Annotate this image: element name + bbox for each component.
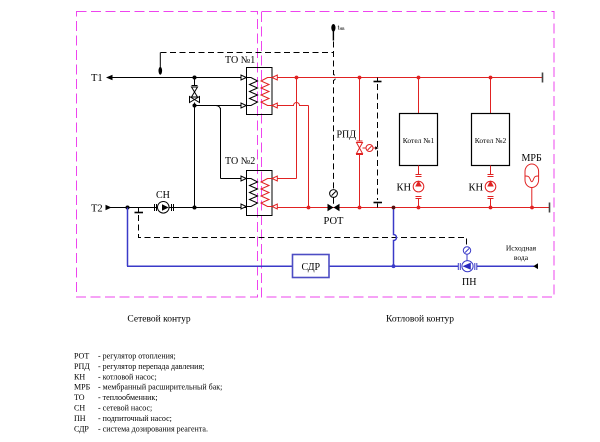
svg-text:КН: КН	[74, 372, 85, 381]
svg-text:РОТ: РОТ	[74, 352, 89, 361]
svg-text:- регулятор отопления;: - регулятор отопления;	[98, 352, 176, 361]
svg-text:РОТ: РОТ	[324, 216, 345, 227]
svg-text:ПН: ПН	[462, 277, 476, 288]
svg-text:Котел №1: Котел №1	[403, 136, 435, 145]
svg-text:Т2: Т2	[91, 204, 103, 215]
svg-text:СН: СН	[74, 404, 85, 413]
svg-text:- теплообменник;: - теплообменник;	[98, 393, 158, 402]
svg-text:КН: КН	[397, 183, 412, 194]
svg-text:- подпиточный насос;: - подпиточный насос;	[98, 414, 172, 423]
svg-text:- сетевой насос;: - сетевой насос;	[98, 404, 152, 413]
svg-text:РПД: РПД	[74, 362, 90, 371]
svg-text:- котловой насос;: - котловой насос;	[98, 372, 157, 381]
svg-text:- регулятор перепада давления;: - регулятор перепада давления;	[98, 362, 204, 371]
svg-text:РПД: РПД	[337, 130, 357, 141]
svg-text:Сетевой контур: Сетевой контур	[127, 314, 190, 325]
svg-text:Исходная: Исходная	[506, 244, 537, 253]
svg-text:Котловой контур: Котловой контур	[386, 314, 454, 325]
svg-text:Т1: Т1	[91, 73, 103, 84]
svg-text:ТО №1: ТО №1	[225, 55, 255, 66]
svg-text:ПН: ПН	[74, 414, 86, 423]
svg-text:- мембранный расширительный ба: - мембранный расширительный бак;	[98, 383, 222, 392]
svg-text:СДР: СДР	[74, 424, 89, 433]
svg-text:Котел №2: Котел №2	[475, 136, 507, 145]
svg-text:- система дозирования реагента: - система дозирования реагента.	[98, 424, 208, 433]
svg-text:МРБ: МРБ	[522, 153, 542, 164]
svg-text:ТО: ТО	[74, 393, 85, 402]
svg-text:МРБ: МРБ	[74, 383, 91, 392]
svg-text:ТО №2: ТО №2	[225, 156, 255, 167]
svg-text:КН: КН	[469, 183, 484, 194]
svg-text:вода: вода	[514, 253, 529, 262]
svg-text:СН: СН	[156, 190, 170, 201]
svg-text:СДР: СДР	[302, 262, 321, 273]
